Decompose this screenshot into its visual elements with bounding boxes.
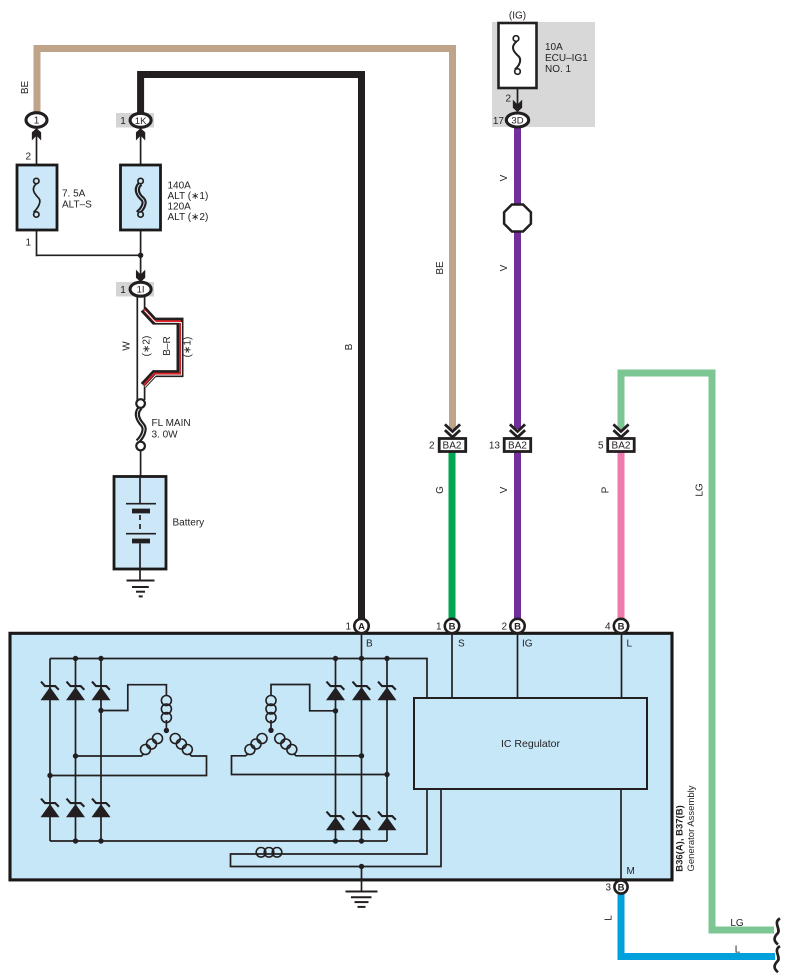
- svg-text:V: V: [499, 486, 510, 493]
- svg-text:2: 2: [501, 622, 507, 633]
- svg-text:L: L: [627, 639, 633, 650]
- svg-text:1K: 1K: [135, 116, 147, 127]
- svg-text:1: 1: [436, 622, 442, 633]
- svg-text:S: S: [458, 639, 465, 650]
- svg-text:1: 1: [345, 622, 351, 633]
- svg-text:W: W: [122, 341, 133, 351]
- svg-text:10A: 10A: [545, 42, 563, 53]
- svg-text:BE: BE: [435, 261, 446, 275]
- svg-text:LG: LG: [730, 918, 744, 929]
- svg-text:B: B: [449, 622, 456, 633]
- svg-text:3. 0W: 3. 0W: [152, 430, 179, 441]
- svg-text:120A: 120A: [168, 202, 192, 213]
- svg-text:3: 3: [605, 883, 611, 894]
- svg-text:1: 1: [120, 116, 126, 127]
- svg-text:ECU–IG1: ECU–IG1: [545, 53, 588, 64]
- svg-text:2: 2: [505, 94, 511, 105]
- svg-text:IG: IG: [522, 639, 533, 650]
- svg-text:M: M: [627, 866, 635, 877]
- svg-text:BA2: BA2: [612, 441, 631, 452]
- svg-text:L: L: [735, 945, 741, 956]
- svg-text:1: 1: [34, 116, 40, 127]
- svg-text:4: 4: [605, 622, 611, 633]
- svg-text:BA2: BA2: [443, 441, 462, 452]
- svg-text:NO. 1: NO. 1: [545, 64, 572, 75]
- svg-text:ALT (∗1): ALT (∗1): [168, 191, 209, 202]
- svg-text:BE: BE: [20, 81, 31, 95]
- svg-text:B: B: [514, 622, 521, 633]
- svg-text:B: B: [618, 883, 625, 894]
- svg-text:2: 2: [25, 152, 31, 163]
- svg-text:BA2: BA2: [508, 441, 527, 452]
- svg-text:5: 5: [598, 441, 604, 452]
- svg-text:140A: 140A: [168, 181, 192, 192]
- svg-text:A: A: [358, 622, 365, 633]
- svg-text:(∗2): (∗2): [142, 336, 153, 357]
- svg-text:L: L: [604, 915, 615, 921]
- svg-text:P: P: [601, 486, 612, 493]
- svg-text:3D: 3D: [511, 116, 523, 127]
- svg-text:V: V: [499, 174, 510, 181]
- svg-text:7. 5A: 7. 5A: [62, 189, 86, 200]
- svg-text:ALT (∗2): ALT (∗2): [168, 212, 209, 223]
- svg-text:Battery: Battery: [173, 518, 205, 529]
- svg-text:B: B: [366, 639, 373, 650]
- svg-text:IC Regulator: IC Regulator: [501, 738, 560, 750]
- svg-text:B: B: [344, 343, 355, 350]
- svg-text:1I: 1I: [137, 285, 145, 296]
- svg-text:(∗1): (∗1): [183, 337, 194, 358]
- svg-text:1: 1: [120, 285, 126, 296]
- svg-text:13: 13: [489, 441, 501, 452]
- svg-text:2: 2: [429, 441, 435, 452]
- svg-text:G: G: [435, 486, 446, 494]
- svg-text:B36(A), B37(B): B36(A), B37(B): [675, 805, 686, 872]
- svg-text:17: 17: [493, 116, 505, 127]
- svg-text:LG: LG: [695, 483, 706, 497]
- svg-text:B–R: B–R: [162, 336, 173, 355]
- svg-text:V: V: [499, 264, 510, 271]
- svg-text:ALT–S: ALT–S: [62, 200, 92, 211]
- svg-text:(IG): (IG): [509, 11, 526, 22]
- svg-text:FL MAIN: FL MAIN: [152, 418, 191, 429]
- svg-text:B: B: [618, 622, 625, 633]
- svg-text:Generator Assembly: Generator Assembly: [686, 785, 697, 871]
- svg-text:1: 1: [25, 238, 31, 249]
